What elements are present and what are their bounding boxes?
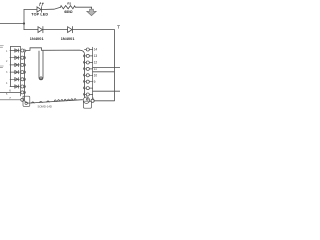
svg-text:1N4001: 1N4001 (61, 37, 75, 41)
right pad row 10 (85, 74, 93, 77)
svg-text:5: 5 (6, 93, 8, 96)
right pad row 9 (85, 80, 93, 83)
wire: lower right pin to right edge (93, 90, 120, 92)
right pad row 7b (85, 93, 93, 96)
wire: top branch right (75, 6, 91, 8)
svg-text:3: 3 (6, 71, 8, 74)
pin 1 row: wire, diode, pad (10, 49, 25, 52)
svg-text:1N4001: 1N4001 (30, 37, 44, 41)
IC notch slot (39, 51, 43, 80)
diode D3 1N4001 (68, 27, 73, 33)
pin 3 row: wire, diode, pad (10, 63, 25, 66)
left feed bus (10, 47, 12, 87)
wire: lower branch left (24, 29, 38, 31)
resistor R1 (61, 6, 76, 9)
cut-off net label left edge lower (0, 66, 3, 68)
off-page connector arrow (down) (87, 9, 96, 15)
right pads column vertical link (92, 47, 94, 99)
pin 7 row: wire from edge, pad (0, 91, 25, 94)
pin 8 row: wire from edge, pad (0, 98, 24, 101)
svg-text:12: 12 (94, 61, 98, 65)
IC bottom-right ring (83, 97, 89, 103)
IC bottom-left corner block (23, 96, 30, 106)
wire: right vertical bus (113, 30, 115, 101)
svg-text:680Ω: 680Ω (64, 10, 73, 14)
svg-text:R1: R1 (67, 1, 71, 5)
svg-text:2: 2 (6, 60, 8, 63)
node A junction dot (23, 22, 25, 24)
wire: lower branch right to bus (73, 29, 115, 31)
right pad row 14 (85, 48, 93, 51)
IC bottom-right corner block (83, 101, 91, 108)
wire: bottom pin to bus (94, 100, 114, 102)
svg-text:9: 9 (94, 80, 96, 84)
LED D1 "TOP LED" (37, 3, 43, 13)
svg-text:1: 1 (6, 50, 8, 53)
edge mark top right (117, 26, 119, 29)
IC bottom-right ring dot (86, 98, 88, 100)
wire: lower branch middle (43, 29, 68, 31)
svg-text:13: 13 (94, 54, 98, 58)
IC U1 package outline (25, 48, 85, 103)
IC bottom edge bumps (31, 99, 76, 103)
pin 6 row: wire, diode, pad (10, 85, 25, 88)
right pad row bottom (91, 99, 94, 102)
svg-text:14: 14 (94, 48, 98, 52)
svg-text:TOP LED: TOP LED (31, 13, 48, 17)
wire: top branch middle (41, 7, 60, 9)
pin 4 row: wire, diode, pad (10, 70, 25, 73)
wire: top branch left (24, 9, 37, 11)
wire: pin11 to bus (93, 71, 115, 73)
wire: stub into arrow (91, 7, 93, 9)
IC right edge pin dimples (83, 55, 84, 58)
pin 2 row: wire, diode, pad (10, 56, 25, 59)
left connector strip edge (11, 47, 21, 97)
right pad row 8 (85, 87, 93, 90)
IC left edge pin dimples (25, 49, 26, 52)
svg-text:10: 10 (94, 74, 98, 78)
right pad row 13 (85, 54, 93, 57)
svg-text:6: 6 (9, 89, 11, 93)
right pad row 12 (85, 61, 93, 64)
wire: pin12 to right edge (93, 67, 120, 69)
IC notch slot hole (40, 77, 42, 79)
svg-text:4: 4 (6, 82, 8, 85)
svg-text:7: 7 (9, 96, 11, 100)
pin 5 row: wire, diode, pad (10, 78, 25, 81)
svg-text:SOMD-14D: SOMD-14D (38, 105, 52, 109)
wire: vertical branch split (23, 10, 25, 30)
cut-off net label left edge upper (0, 46, 3, 48)
diode D2 1N4001 (38, 27, 43, 33)
IC bottom-left corner hole (25, 102, 28, 105)
right pad row 11 (85, 67, 93, 70)
wire: left input at y=23.5 (0, 23, 24, 25)
